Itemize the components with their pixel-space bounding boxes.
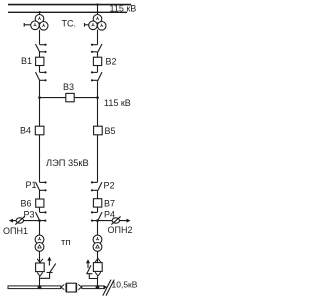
continuation slash 2 (106, 280, 114, 296)
disconnector QS4 right (91, 71, 102, 81)
disconnector P1 (36, 181, 47, 191)
node right tap (96, 3, 98, 5)
transformer T4 (two-winding, right) (93, 235, 102, 251)
node left tap (38, 11, 40, 13)
arrowhead OPN2 (127, 219, 131, 223)
wire (39, 190, 41, 199)
disconnector P4 (91, 211, 102, 221)
node tie left (38, 96, 41, 99)
svg-text:В7: В7 (104, 198, 115, 208)
svg-text:115 кВ: 115 кВ (104, 98, 131, 108)
section breaker contact bar left (65, 283, 67, 292)
section breaker contact bar right (76, 283, 78, 292)
surge arrester OPN1 (15, 216, 24, 224)
arrowhead OPN1 (9, 219, 13, 223)
node right tap bus2 crossing (97, 11, 99, 13)
wire OPN1 branch (10, 220, 46, 222)
wire left column lower (39, 135, 41, 183)
svg-text:В6: В6 (21, 199, 32, 209)
section breaker drawout chevron right (78, 284, 81, 289)
surge arrester OPN2 (111, 216, 120, 224)
wire (97, 251, 99, 262)
wire (39, 52, 41, 57)
breaker B3 (66, 93, 74, 101)
disconnector QS1 left (36, 44, 47, 53)
wire right column upper (97, 30, 99, 45)
drawout breaker B8 left (36, 259, 45, 276)
wire (97, 52, 99, 57)
disconnector P2 (91, 181, 102, 191)
busbar 115kV line 2 (8, 11, 127, 13)
wire (39, 221, 41, 236)
breaker B6 (36, 199, 44, 207)
svg-text:В3: В3 (63, 82, 74, 92)
svg-text:ОПН1: ОПН1 (3, 226, 28, 236)
wire (97, 190, 99, 198)
wire T1 tertiary end tick (23, 23, 25, 27)
svg-text:ОПН2: ОПН2 (108, 225, 133, 235)
node branch tick end (91, 220, 93, 222)
svg-text:Р1: Р1 (26, 180, 37, 190)
wire left column upper (39, 30, 41, 45)
wire OPN2 branch (92, 220, 126, 222)
breaker B5 (94, 126, 103, 135)
breaker B7 (93, 199, 101, 207)
svg-text:Р2: Р2 (104, 180, 115, 190)
node P3 bottom (38, 219, 41, 222)
transformer T1 (three-winding, left) (31, 14, 48, 30)
busbar 10.5kV left section (8, 286, 61, 289)
svg-text:В2: В2 (106, 57, 117, 67)
busbar 10.5kV right section (82, 286, 105, 289)
svg-text:В4: В4 (20, 126, 31, 136)
svg-text:ЛЭП 35кВ: ЛЭП 35кВ (46, 158, 89, 168)
svg-text:тп: тп (61, 237, 71, 248)
section breaker drawout chevron left (61, 284, 64, 289)
wire (97, 207, 99, 212)
breaker B2 (93, 57, 101, 65)
disconnector QS2 left (36, 71, 47, 81)
wire bus tie (40, 97, 98, 99)
node left feeder on bus (38, 285, 42, 289)
svg-text:ТС.: ТС. (62, 18, 77, 28)
breaker B4 (35, 126, 44, 135)
disconnector QS3 right (91, 44, 102, 53)
wire right column mid (97, 80, 99, 126)
wire T2 tertiary lead (85, 24, 90, 26)
wire right column lower (97, 135, 99, 183)
node branch tick end (44, 220, 46, 222)
wire (39, 66, 41, 73)
drawout breaker B9 right (93, 258, 102, 276)
transformer T3 (two-winding, left) (35, 235, 44, 251)
arrowhead bus end (103, 285, 107, 289)
wire (97, 221, 99, 236)
earthing switch with arrow right (86, 259, 97, 278)
node right feeder on bus (96, 285, 100, 289)
continuation slash 1 (103, 280, 111, 296)
wire T2 tertiary end tick (84, 23, 86, 27)
earthing switch with arrow left (40, 257, 56, 279)
svg-text:В5: В5 (105, 126, 116, 136)
wire left column mid (39, 80, 41, 126)
wire T1 tertiary lead (24, 24, 31, 26)
wire (39, 251, 41, 263)
transformer T2 (three-winding, right) (89, 14, 106, 30)
wire (39, 276, 41, 286)
section breaker SB (67, 283, 77, 292)
svg-text:115 кВ: 115 кВ (110, 3, 137, 13)
wire (97, 276, 99, 286)
wire tap left from bus 2 (39, 12, 41, 15)
disconnector P3 (36, 211, 47, 221)
svg-text:В1: В1 (21, 56, 32, 66)
busbar 115kV line 1 (8, 4, 131, 6)
wire (39, 207, 41, 212)
breaker B1 (36, 57, 44, 65)
wire tap right from bus 1 (97, 5, 99, 16)
wire (97, 66, 99, 73)
svg-text:10,5кВ: 10,5кВ (112, 279, 138, 289)
node tie right (96, 96, 99, 99)
svg-text:Р3: Р3 (24, 210, 35, 220)
node P4 bottom (96, 219, 99, 222)
